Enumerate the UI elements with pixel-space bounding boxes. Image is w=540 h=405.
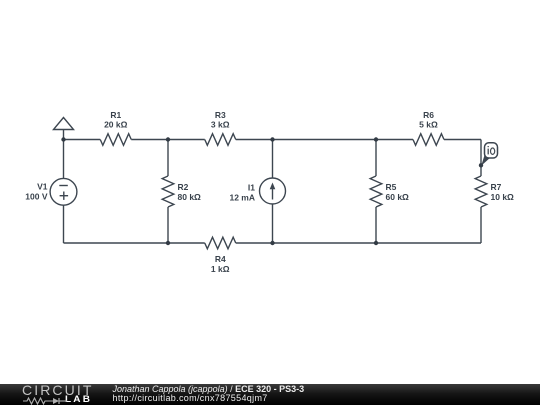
svg-text:100 V: 100 V: [25, 192, 48, 202]
svg-text:R7: R7: [491, 182, 502, 192]
svg-text:5 kΩ: 5 kΩ: [419, 120, 438, 130]
svg-text:R5: R5: [386, 182, 397, 192]
svg-text:80 kΩ: 80 kΩ: [178, 192, 202, 202]
svg-text:R2: R2: [178, 182, 189, 192]
svg-text:10 kΩ: 10 kΩ: [491, 192, 515, 202]
svg-text:60 kΩ: 60 kΩ: [386, 192, 410, 202]
svg-text:20 kΩ: 20 kΩ: [104, 120, 128, 130]
svg-text:R3: R3: [215, 110, 226, 120]
svg-text:I1: I1: [248, 183, 255, 193]
svg-text:R1: R1: [110, 110, 121, 120]
svg-text:12 mA: 12 mA: [229, 193, 255, 203]
svg-text:R6: R6: [423, 110, 434, 120]
svg-text:R4: R4: [215, 254, 226, 264]
svg-text:3 kΩ: 3 kΩ: [211, 120, 230, 130]
svg-text:V1: V1: [37, 182, 48, 192]
svg-text:1 kΩ: 1 kΩ: [211, 264, 230, 274]
